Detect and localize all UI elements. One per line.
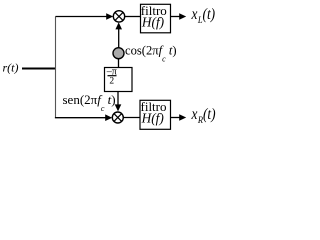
svg-text:2: 2 [109,77,114,87]
svg-text:xL(t): xL(t) [191,6,216,25]
svg-text:r(t): r(t) [3,61,19,75]
svg-text:cos(2πfc t): cos(2πfc t) [125,44,177,64]
svg-text:xR(t): xR(t) [191,106,216,125]
svg-text:H(f): H(f) [141,15,165,30]
svg-text:sen(2πfc t): sen(2πfc t) [63,92,116,113]
svg-text:H(f): H(f) [141,111,165,126]
